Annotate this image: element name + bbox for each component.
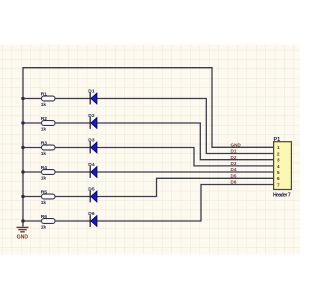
- svg-text:D3: D3: [88, 137, 95, 143]
- svg-text:2: 2: [277, 151, 280, 156]
- svg-text:D1: D1: [231, 149, 237, 154]
- svg-text:5: 5: [277, 170, 280, 175]
- svg-text:R6: R6: [41, 214, 48, 220]
- svg-text:D5: D5: [88, 186, 95, 192]
- svg-text:1: 1: [277, 145, 280, 150]
- svg-text:D5: D5: [231, 173, 237, 178]
- svg-text:1k: 1k: [41, 127, 47, 133]
- svg-text:R3: R3: [41, 140, 48, 146]
- svg-text:D3: D3: [231, 161, 237, 166]
- svg-text:D4: D4: [88, 162, 95, 168]
- svg-text:R1: R1: [41, 91, 48, 97]
- svg-text:7: 7: [277, 182, 280, 187]
- svg-text:D6: D6: [231, 180, 237, 185]
- svg-text:6: 6: [277, 176, 280, 181]
- svg-text:R4: R4: [41, 165, 48, 171]
- svg-text:D2: D2: [88, 113, 95, 119]
- svg-text:1k: 1k: [41, 151, 47, 157]
- svg-text:1k: 1k: [41, 176, 47, 182]
- svg-text:1k: 1k: [41, 102, 47, 108]
- svg-text:D2: D2: [231, 155, 237, 160]
- svg-text:GND: GND: [17, 234, 29, 240]
- svg-text:1k: 1k: [41, 225, 47, 231]
- svg-text:GND: GND: [231, 142, 242, 147]
- svg-text:R5: R5: [41, 189, 48, 195]
- svg-text:P1: P1: [274, 137, 281, 143]
- svg-text:4: 4: [277, 164, 280, 169]
- svg-text:D4: D4: [231, 167, 237, 172]
- svg-text:D6: D6: [88, 211, 95, 217]
- svg-text:1k: 1k: [41, 200, 47, 206]
- svg-text:Header 7: Header 7: [273, 192, 291, 198]
- svg-text:3: 3: [277, 158, 280, 163]
- svg-text:D1: D1: [88, 88, 95, 94]
- svg-text:R2: R2: [41, 116, 48, 122]
